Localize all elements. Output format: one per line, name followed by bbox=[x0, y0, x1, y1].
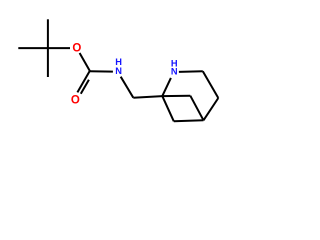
svg-text:O: O bbox=[71, 94, 80, 106]
bond C(CH3) bottom arm of tert-butyl bbox=[47, 48, 49, 77]
bond bridge C1 to C7 bbox=[162, 95, 190, 97]
bond C(CH3) top arm of tert-butyl bbox=[47, 19, 49, 48]
bond ring C5 to C6 bbox=[174, 120, 204, 121]
svg-text:N: N bbox=[171, 67, 178, 77]
svg-text:O: O bbox=[72, 43, 81, 55]
bond ring C4 to C5 bbox=[204, 98, 219, 120]
bond CH2 to ring C1 bbox=[133, 96, 162, 98]
bond ring C6 to C1 bbox=[162, 96, 174, 121]
svg-text:N: N bbox=[115, 66, 122, 76]
double bond C=O main line bbox=[77, 71, 89, 93]
bond bridge C7 to C5 bbox=[190, 96, 203, 121]
bond carbamate N to CH2 bbox=[121, 77, 134, 98]
bond carbonyl C to carbamate N bbox=[90, 70, 113, 72]
double bond C=O inner line bbox=[81, 80, 89, 94]
bond C(CH3) left arm of tert-butyl bbox=[18, 47, 48, 49]
bond tBu C to ester O bbox=[48, 47, 70, 49]
bond ester O to carbonyl C bbox=[80, 53, 90, 71]
bond ring N to ring C3 bbox=[179, 70, 203, 73]
bond ring C1 to ring N bbox=[162, 78, 171, 96]
bond ring C3 to C4 bbox=[203, 71, 219, 98]
